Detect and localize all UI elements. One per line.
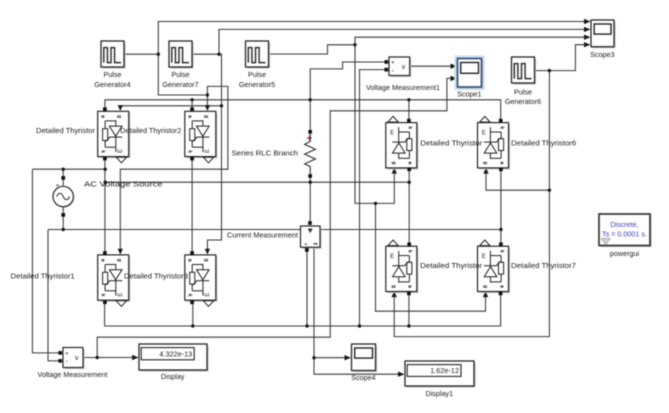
scope Scope4 [351, 344, 377, 382]
svg-text:v: v [75, 355, 79, 362]
svg-text:Detailed Thyristor: Detailed Thyristor [420, 139, 483, 148]
arrow gate thyristor6 [483, 168, 488, 174]
svg-text:k: k [187, 150, 193, 153]
wire bottom electrical rail [105, 294, 501, 327]
svg-text:k: k [99, 150, 105, 153]
svg-text:Detailed Thyristor2: Detailed Thyristor2 [120, 126, 181, 135]
wire PG4 junction up to Scope3 input1 rail [158, 22, 585, 55]
arrow Scope1 input2 [451, 76, 458, 81]
svg-text:k: k [407, 126, 413, 129]
arrow Scope4 input [345, 355, 352, 360]
node bridge mid left [104, 168, 107, 171]
node PG7 gate branch [220, 104, 223, 107]
svg-text:Current Measurement: Current Measurement [227, 230, 298, 239]
wire PG7 output to junction [192, 53, 219, 55]
pulse generator Generator4 [94, 41, 130, 89]
svg-text:+: + [56, 182, 60, 189]
wire to Scope4 [314, 357, 348, 359]
wire Current Measurement top [309, 182, 311, 223]
wire rail down to Voltage Measurement minus [48, 230, 60, 361]
thyristor U6 Detailed Thyristor6 [478, 123, 511, 170]
port k U1 [103, 157, 107, 161]
pulse generator Generator7 [162, 41, 198, 89]
wire PG5 down to Detailed Thyristor7 gate [376, 203, 486, 311]
node PG4 branch [206, 93, 209, 96]
svg-text:g: g [482, 285, 488, 288]
scope Scope3 [590, 20, 615, 59]
svg-text:Generator4: Generator4 [94, 80, 130, 89]
svg-text:Detailed Thyristor: Detailed Thyristor [420, 261, 483, 270]
svg-text:E: E [390, 130, 394, 136]
port a U6 [499, 167, 503, 171]
series RLC branch R1 [232, 130, 316, 178]
node lower rail right [499, 228, 502, 231]
svg-text:4.322e-13: 4.322e-13 [159, 349, 192, 358]
pin m U2 [203, 157, 213, 163]
svg-text:+: + [65, 351, 69, 357]
node bottom rail t3 [191, 324, 194, 327]
arrow gate thyristor3 [205, 249, 210, 255]
current measurement CM1 [227, 221, 322, 252]
wire Voltage Measurement output to Scope1 input2 [97, 78, 454, 357]
svg-text:g: g [116, 259, 122, 262]
svg-text:Detailed Thyristor7: Detailed Thyristor7 [511, 261, 576, 270]
svg-text:Detailed Thyristor6: Detailed Thyristor6 [511, 139, 576, 148]
svg-text:Generator6: Generator6 [505, 97, 541, 106]
wire AC source top terminal [62, 169, 64, 178]
node mid rail RLC bottom [309, 181, 312, 184]
port k U7 [407, 242, 411, 246]
arrow Scope1 input1 [451, 64, 458, 69]
port a U4 [190, 251, 194, 255]
port k U2 [190, 157, 194, 161]
thyristor U1 Detailed Thyristor [98, 111, 131, 158]
voltage measurement VM [37, 348, 107, 380]
wire Voltage Measurement1 minus input [360, 70, 386, 326]
svg-text:+: + [391, 61, 395, 67]
node PG5 gate branch [374, 202, 377, 205]
arrow Scope3 input2 [584, 27, 591, 32]
wire PG5 junction up to Scope3 input3 rail [355, 37, 585, 45]
svg-text:a: a [407, 162, 413, 165]
svg-text:E: E [482, 254, 486, 260]
port a U3 [103, 251, 107, 255]
node bottom rail CM [305, 324, 308, 327]
arrow gate thyristor right-bottom [392, 291, 397, 297]
svg-text:k: k [99, 294, 105, 297]
wire PG5 down to right bridge gate line [355, 45, 376, 204]
wire PG6 junction to Scope3 input4 [549, 45, 585, 71]
wire PG7 junction up to Scope3 input2 rail [219, 29, 585, 54]
node mid rail left [104, 181, 107, 184]
AC voltage source [53, 176, 163, 217]
node PG6 junction [548, 69, 551, 72]
display Display1 [405, 361, 476, 398]
svg-text:E: E [390, 254, 394, 260]
svg-text:Scope4: Scope4 [351, 373, 375, 382]
port k U3 [103, 300, 107, 304]
svg-text:Detailed Thyristor1: Detailed Thyristor1 [11, 272, 75, 281]
node mid rail right [408, 181, 411, 184]
svg-text:+: + [304, 242, 307, 248]
arrow gate thyristor1 [118, 249, 123, 255]
wire Current Measurement bottom to rail [306, 250, 308, 326]
pin m U4 [203, 301, 213, 307]
wire lower electrical rail [48, 229, 301, 231]
arrow Scope3 input3 [584, 35, 591, 40]
svg-text:Detailed Thyristor3: Detailed Thyristor3 [124, 272, 188, 281]
svg-text:Discrete,: Discrete, [610, 220, 638, 229]
node rail thyristor cathode [407, 98, 410, 101]
svg-text:Pulse: Pulse [104, 70, 122, 79]
wire top electrical rail [105, 100, 501, 123]
svg-text:Series RLC Branch: Series RLC Branch [232, 148, 299, 157]
pulse generator Generator6 [505, 57, 541, 106]
wire left bridge mid vertical 2 [191, 157, 193, 253]
wire PG6 output to junction [535, 70, 550, 72]
svg-text:v: v [402, 64, 406, 71]
node bottom rail VM1 [358, 324, 361, 327]
pin m U7 [388, 240, 398, 246]
port a U8 [499, 292, 503, 296]
wire rail down to Series RLC Branch [309, 100, 311, 132]
thyristor U8 Detailed Thyristor7 [478, 246, 511, 293]
wire mid electrical rail [105, 181, 409, 183]
svg-text:Generator5: Generator5 [239, 80, 275, 89]
svg-text:g: g [391, 285, 397, 288]
wire Voltage Measurement output to Display [83, 357, 136, 359]
thyristor U2 Detailed Thyristor2 [185, 111, 218, 158]
svg-text:powergui: powergui [610, 249, 640, 258]
svg-text:Detailed Thyristor: Detailed Thyristor [36, 126, 96, 135]
svg-text:Scope1: Scope1 [457, 90, 481, 99]
wire AC source bottom terminal to lower rail [62, 215, 64, 230]
wire AC plus down to Voltage Measurement [32, 169, 59, 353]
svg-text:g: g [116, 115, 122, 118]
svg-text:g: g [203, 259, 209, 262]
svg-text:k: k [498, 250, 504, 253]
arrow gate thyristor top-left [118, 105, 123, 111]
wire PG4 output to junction [124, 53, 158, 55]
node AC plus tap [62, 168, 65, 171]
wire PG6 down to Detailed Thyristor (right bottom) gate [394, 190, 549, 336]
node rail RLC top [309, 98, 312, 101]
port a U1 [103, 107, 107, 111]
svg-text:g: g [482, 161, 488, 164]
arrow gate thyristor right-top [392, 168, 397, 174]
svg-text:E: E [118, 149, 124, 153]
svg-text:AC Voltage Source: AC Voltage Source [84, 180, 163, 189]
svg-text:Ts = 0.0001 s.: Ts = 0.0001 s. [602, 230, 647, 239]
wire Detailed Thyristor3 cathode down [192, 300, 194, 326]
wire PG5 output up to junction [269, 45, 356, 54]
port k U4 [190, 300, 194, 304]
pin m U1 [116, 157, 126, 163]
wire right bridge vertical 1 [408, 168, 410, 244]
svg-text:a: a [99, 115, 105, 118]
wire gate feed into Detailed Thyristor2 [206, 95, 208, 108]
wire rail to Detailed Thyristor (right top) cathode [408, 100, 410, 123]
thyristor U4 Detailed Thyristor3 [185, 255, 218, 302]
port a U7 [407, 292, 411, 296]
wire PG5 gate line to Detailed Thyristor (right top) gate [376, 171, 395, 203]
svg-text:E: E [205, 149, 211, 153]
wire RLC bottom to mid rail [309, 176, 311, 182]
pin m U5 [388, 116, 398, 122]
svg-text:g: g [203, 115, 209, 118]
powergui block [599, 214, 652, 258]
wire PG6 to Detailed Thyristor6 gate [486, 171, 549, 190]
node PG5 junction [353, 43, 356, 46]
node PG6 gate branch [548, 189, 551, 192]
display Display [139, 344, 209, 381]
svg-text:k: k [187, 294, 193, 297]
arrow gate thyristor2 [205, 105, 210, 111]
svg-text:E: E [118, 293, 124, 297]
svg-text:k: k [498, 126, 504, 129]
port a U5 [407, 167, 411, 171]
pin m U6 [480, 116, 490, 122]
arrow Display1 input [398, 372, 405, 377]
arrow Display input [132, 355, 139, 360]
svg-text:k: k [407, 250, 413, 253]
svg-text:a: a [187, 259, 193, 262]
wire Voltage Measurement1 output to Scope1 [410, 65, 457, 67]
arrow Scope3 input1 [584, 19, 591, 24]
svg-text:E: E [482, 130, 486, 136]
svg-text:Pulse: Pulse [172, 70, 190, 79]
wire Voltage Measurement1 plus input [310, 62, 385, 100]
svg-text:g: g [391, 161, 397, 164]
svg-text:Voltage Measurement1: Voltage Measurement1 [366, 83, 440, 92]
wire rail to Detailed Thyristor2 anode [191, 100, 193, 111]
svg-text:Display: Display [161, 372, 185, 381]
wire left bridge mid vertical [104, 157, 106, 253]
wire PG4 hook to Detailed Thyristor1 gate [120, 86, 228, 251]
port k U8 [499, 242, 503, 246]
pin m U8 [480, 240, 490, 246]
svg-text:1.62e-12: 1.62e-12 [430, 366, 459, 375]
wire PG6 down to junction2 [548, 71, 550, 191]
node bottom rail t4 [407, 324, 410, 327]
svg-text:a: a [498, 162, 504, 165]
pulse generator Generator5 [239, 41, 275, 89]
wire AC source plus line [32, 168, 105, 170]
svg-text:Generator7: Generator7 [162, 80, 198, 89]
node rail thyristor2 anode [190, 98, 193, 101]
node CM output branch [312, 356, 315, 359]
svg-text:Pulse: Pulse [248, 70, 266, 79]
node AC minus tap [62, 228, 65, 231]
svg-text:Scope3: Scope3 [590, 50, 614, 59]
arrow gate thyristor7 [483, 291, 488, 297]
svg-text:Pulse: Pulse [514, 88, 532, 97]
svg-text:Voltage Measurement: Voltage Measurement [37, 370, 107, 379]
svg-text:a: a [498, 285, 504, 288]
voltage measurement VM1 [366, 57, 440, 92]
svg-text:a: a [407, 285, 413, 288]
node PG4 junction [157, 53, 160, 56]
scope Scope1 [454, 55, 484, 98]
thyristor U7 Detailed Thyristor (right bottom) [386, 246, 419, 293]
port k U6 [499, 119, 503, 123]
svg-text:Display1: Display1 [426, 389, 454, 398]
pin m U3 [116, 301, 126, 307]
wire Detailed Thyristor (right bottom) anode to rail [408, 294, 410, 327]
node PG7 junction [217, 53, 220, 56]
wire PG4 junction down then right [158, 54, 207, 95]
wire right bridge vertical 2 [500, 168, 502, 244]
wire Current Measurement output down [313, 247, 315, 358]
port k U5 [407, 119, 411, 123]
wire to Display1 [314, 358, 402, 375]
wire PG7 down to gate line [219, 54, 222, 106]
svg-text:E: E [205, 293, 211, 297]
thyristor U5 Detailed Thyristor (right top) [386, 123, 419, 170]
wire PG7 down to Detailed Thyristor3 gate [207, 106, 221, 252]
port a U2 [190, 107, 194, 111]
wire lower electrical rail right part [320, 229, 501, 231]
svg-text:a: a [187, 115, 193, 118]
thyristor U3 Detailed Thyristor1 [98, 255, 131, 302]
wire gate line to Detailed Thyristor gate [120, 106, 221, 108]
arrow Scope3 input4 [584, 42, 591, 47]
svg-text:a: a [99, 259, 105, 262]
node VM output branch [96, 356, 99, 359]
